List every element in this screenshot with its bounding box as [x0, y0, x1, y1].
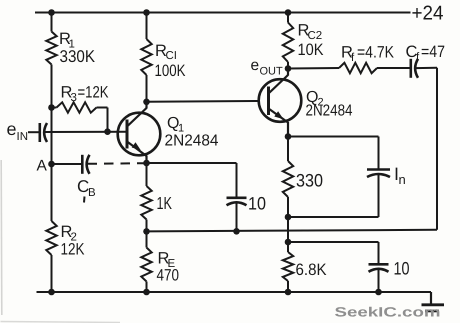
wire: Rf to Cf	[377, 67, 411, 69]
svg-text:12K: 12K	[61, 241, 85, 259]
wire: R2 to ground rail	[51, 255, 53, 292]
resistor R1	[46, 32, 56, 65]
junction: ground rail / R2	[48, 289, 55, 296]
wire: input cap to Q1 base	[45, 131, 127, 133]
wire: Cf to feedback line (right side)	[416, 67, 437, 69]
resistor R3	[52, 107, 57, 109]
wire: In loop bottom	[378, 175, 380, 218]
wire: feedback line	[147, 230, 438, 232]
capacitor 10 (supply decoupling)	[369, 263, 389, 266]
wire: bypass cap to feedback line	[236, 203, 238, 232]
capacitor CB	[81, 155, 84, 174]
svg-text:2N2484: 2N2484	[165, 133, 219, 150]
node: Q2 emitter node	[285, 133, 292, 140]
node: Q1 collector junction	[143, 99, 150, 106]
resistor RC1	[141, 39, 151, 75]
wire: eIN lead	[28, 131, 40, 133]
junction: top rail / RC2	[285, 9, 292, 16]
resistor Rf	[339, 63, 377, 73]
svg-text:330: 330	[296, 171, 323, 191]
svg-text:3: 3	[71, 92, 77, 104]
transistor Q1	[118, 113, 161, 156]
svg-text:CI: CI	[166, 50, 178, 62]
node A	[48, 161, 55, 168]
wire: RC2 to eOUT node	[287, 62, 289, 69]
wire: CB to Q1 emitter node (dashed)	[88, 162, 147, 165]
wire: 6.8K node to decoupling cap	[288, 241, 379, 243]
wire: top rail to R1	[51, 13, 53, 32]
wire: eOUT to Rf	[288, 67, 339, 70]
svg-text:10: 10	[394, 259, 410, 279]
wire: In loop top	[288, 136, 379, 138]
svg-text:A: A	[37, 158, 48, 175]
svg-text:2N2484: 2N2484	[306, 103, 353, 120]
node eOUT	[285, 65, 292, 72]
svg-text:IN: IN	[17, 131, 29, 143]
junction: ground rail / decoupling cap	[375, 289, 382, 296]
resistor RE	[146, 231, 148, 247]
node: 6.8K top junction	[285, 239, 292, 246]
wire: node A to CB	[52, 163, 82, 165]
resistor 1K	[146, 163, 148, 186]
junction: top rail / RC1	[143, 9, 150, 16]
capacitor input coupling cap	[38, 123, 41, 142]
resistor 330	[287, 137, 289, 162]
capacitor 10 (emitter bypass)	[227, 197, 247, 200]
node: Q1 base junction	[104, 128, 111, 135]
svg-text:e: e	[7, 119, 17, 139]
wire: node A to R2	[51, 164, 53, 221]
svg-text:=47: =47	[421, 43, 445, 61]
node: bypass cap / feedback junction	[233, 228, 240, 235]
svg-text:=4.7K: =4.7K	[357, 44, 394, 62]
resistor R2	[46, 221, 56, 255]
svg-text:+24: +24	[412, 3, 444, 25]
svg-text:B: B	[88, 187, 96, 199]
ground	[430, 292, 432, 305]
svg-text:1K: 1K	[157, 193, 173, 213]
wire: RC1 to Q1 collector	[146, 75, 148, 102]
node: Q1 emitter node	[143, 160, 150, 167]
svg-text:100K: 100K	[155, 62, 186, 80]
svg-text:470: 470	[157, 267, 180, 285]
node: feedback junction at Q1 emitter leg	[143, 228, 150, 235]
junction: R3 tap on divider	[48, 104, 55, 111]
svg-text:e: e	[251, 57, 260, 74]
wire: Q1 collector to Q2 base	[147, 100, 259, 103]
svg-text:n: n	[399, 172, 406, 187]
wire: 330 bottom to 6.8K top	[287, 217, 289, 242]
capacitor In	[367, 168, 390, 171]
wire: +24 supply rail (top)	[35, 12, 411, 14]
resistor 6.8K	[287, 242, 289, 252]
wire: top rail to RC2	[287, 13, 289, 23]
svg-text:OUT: OUT	[260, 66, 284, 78]
junction: ground rail / 6.8K	[285, 289, 292, 296]
capacitor Cf	[409, 59, 412, 78]
wire: decoupling cap to ground rail	[378, 269, 380, 292]
wire: top rail to RC1	[146, 13, 148, 40]
node: 330 bottom junction	[285, 214, 292, 221]
svg-text:330K: 330K	[60, 47, 96, 66]
wire: R1 to node A	[51, 65, 53, 165]
wire: emitter node to bypass cap	[147, 162, 237, 164]
svg-text:10K: 10K	[298, 41, 324, 59]
wire: ground rail (bottom)	[37, 291, 432, 293]
svg-text:10: 10	[248, 194, 266, 214]
transistor Q2	[259, 79, 302, 122]
junction: ground rail / RE	[143, 289, 150, 296]
junction: top rail / R1	[48, 9, 55, 16]
svg-text:6.8K: 6.8K	[296, 261, 327, 279]
resistor RC2	[283, 23, 293, 63]
svg-text:SeekIC.com: SeekIC.com	[335, 305, 441, 320]
svg-text:=12K: =12K	[78, 84, 109, 102]
